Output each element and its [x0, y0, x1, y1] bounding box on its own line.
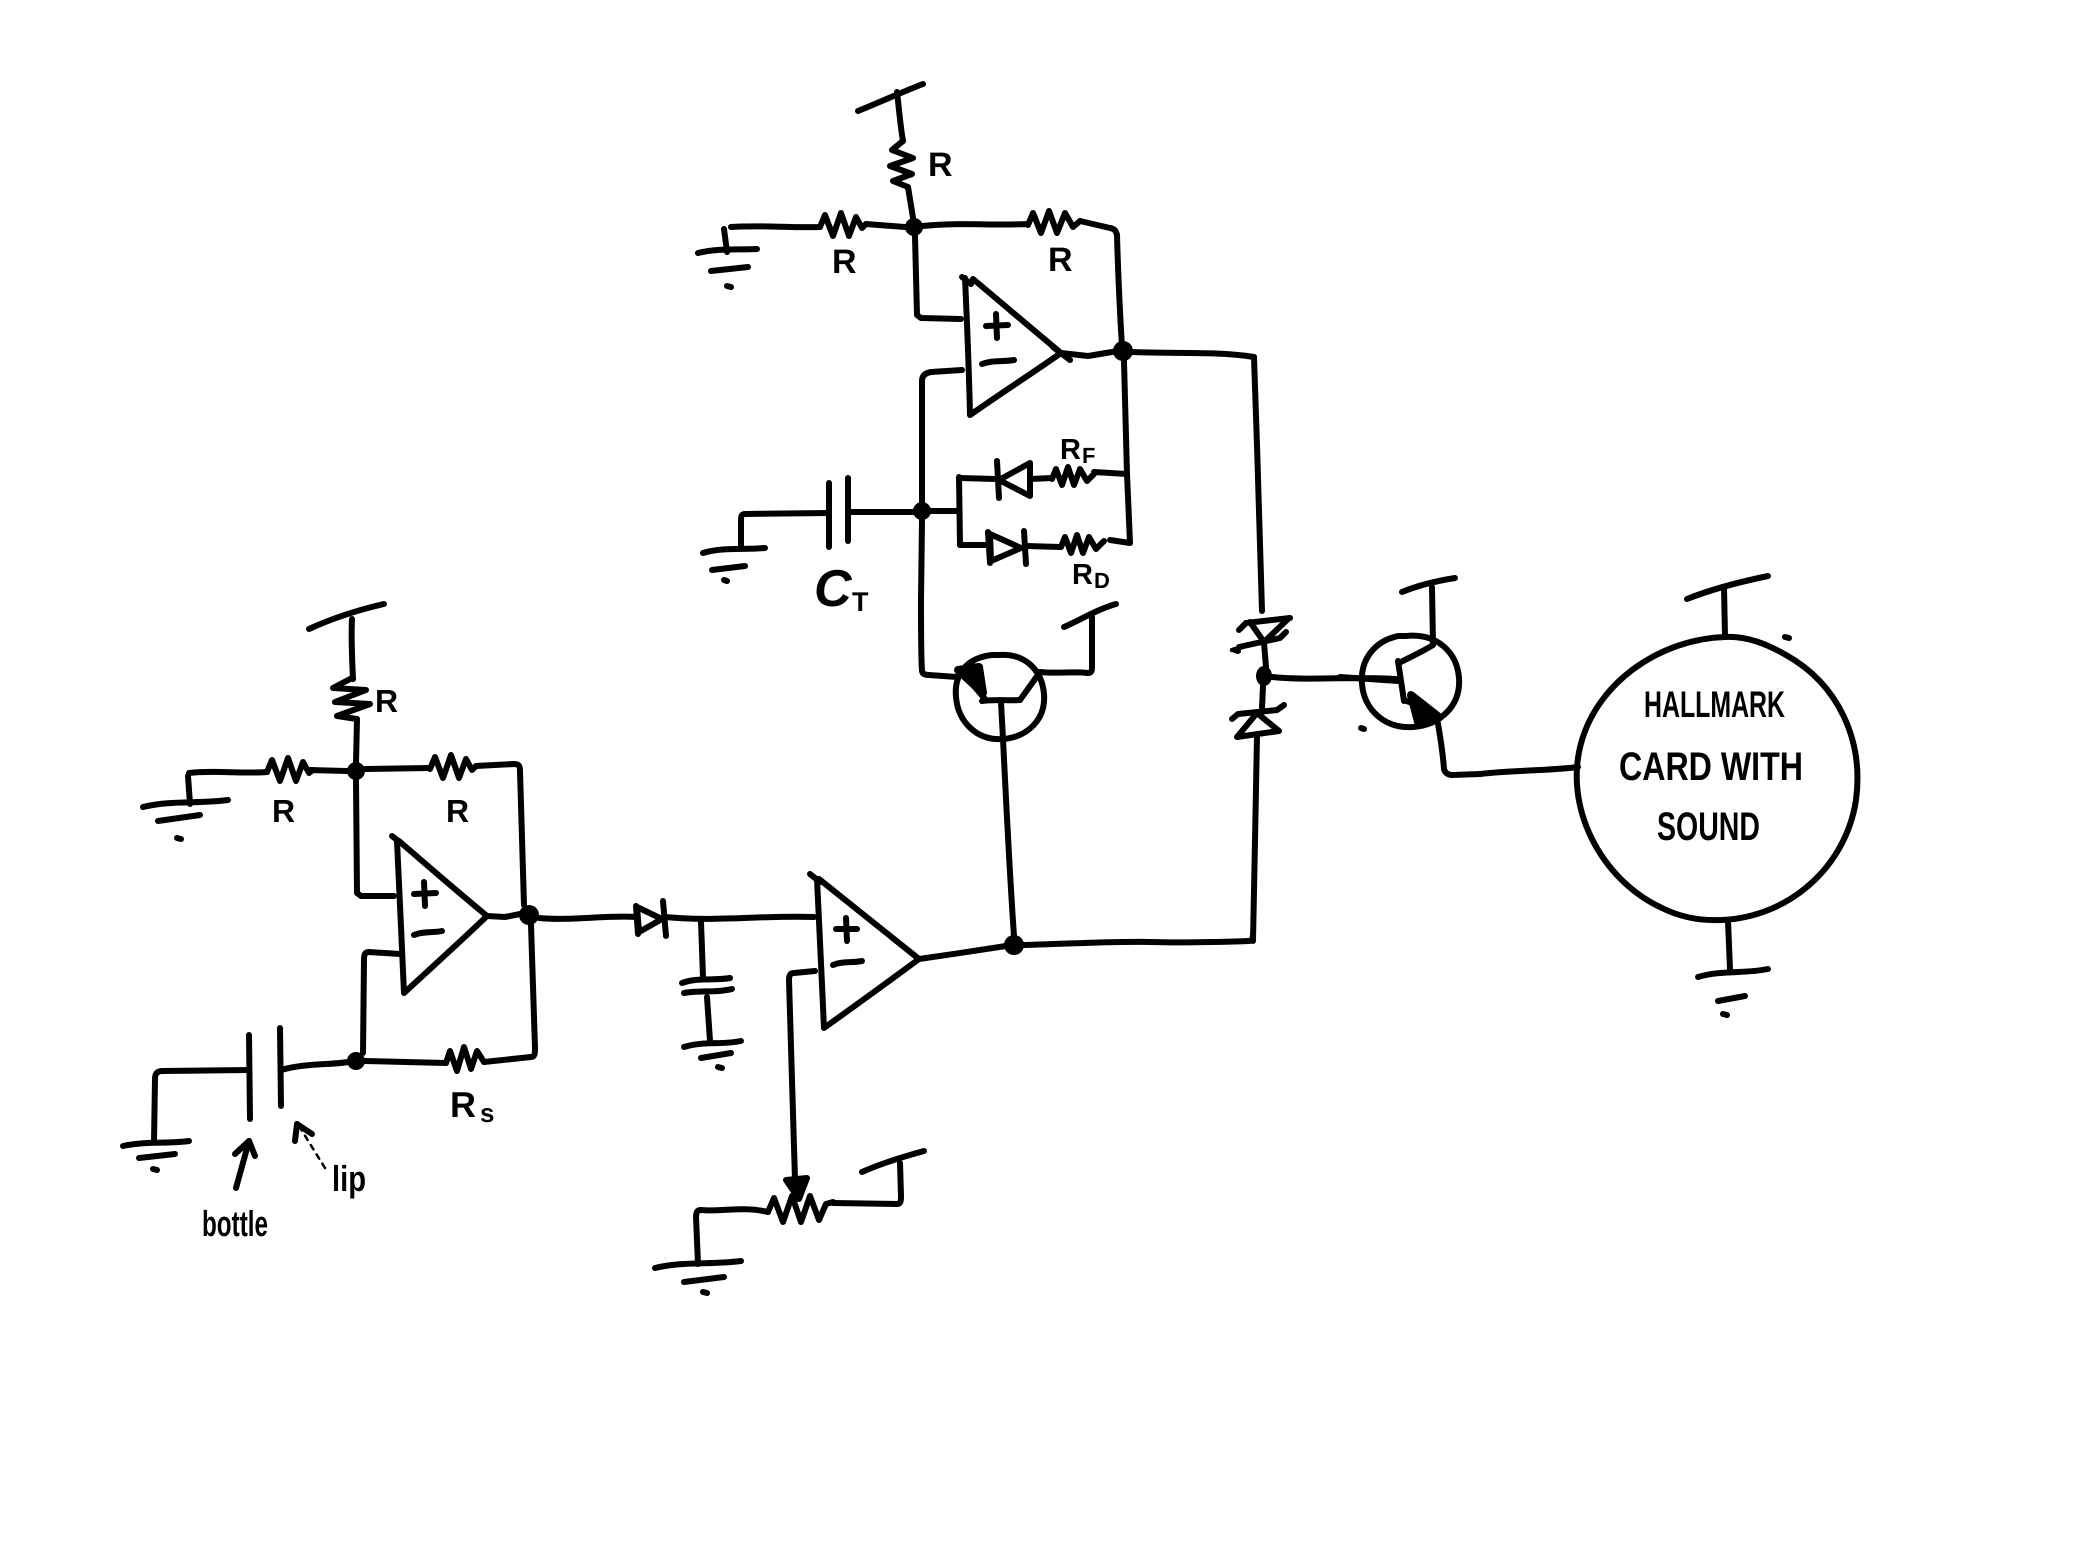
resistor R3 (right) [1028, 211, 1080, 233]
wire junction right to zener branch [1133, 352, 1254, 357]
svg-text:SOUND: SOUND [1657, 805, 1760, 849]
op-amp U2 triangle [810, 874, 820, 882]
op-amp U1 plus [986, 325, 1008, 326]
ground (C2) [684, 1041, 741, 1047]
wire CT right plate to node [848, 509, 913, 515]
svg-text:T: T [852, 587, 869, 617]
wire D3 to RD [1026, 546, 1061, 547]
capacitor bottle left plate [249, 1035, 250, 1119]
svg-text:lip: lip [332, 1158, 366, 1199]
small specks [1361, 728, 1364, 729]
Hallmark circle [1577, 637, 1858, 920]
wire op-amp output to junction [487, 914, 520, 917]
wire Rs up to output junction [484, 925, 535, 1062]
wire R3 to feedback corner [1080, 221, 1117, 235]
wire Hallmark bottom to ground [1728, 921, 1730, 969]
power rail (Q2) [1402, 578, 1455, 592]
zener Z2 [1232, 705, 1284, 719]
wire node to plus input [915, 236, 961, 319]
resistor Rs [446, 1047, 484, 1071]
cap node junction dot [347, 1052, 365, 1070]
arrow to bottle [236, 1141, 249, 1188]
wire CT left plate to ground [741, 513, 829, 548]
svg-text:R: R [450, 1084, 476, 1125]
wire pot left to ground [696, 1209, 768, 1264]
wire op-amp U2 output to junction [919, 946, 1006, 959]
svg-text:R: R [1060, 434, 1081, 466]
wire D2 to RF [1030, 478, 1052, 479]
wire minus input to pot wiper [789, 971, 815, 1180]
node junction dot (left) [347, 762, 365, 780]
op-amp U3 triangle [392, 836, 401, 843]
pot wiper arrowhead [786, 1178, 807, 1199]
wire C2 to ground [707, 997, 710, 1041]
wire D1 to op-amp U2 plus input [665, 917, 814, 919]
speck near circle top [1785, 637, 1789, 638]
wire node to resistor R3 [923, 224, 1028, 226]
wire left vertical to diode D3 [960, 542, 988, 548]
resistor R2 (left) [820, 213, 866, 236]
wire junction right to zener Z2 bottom [1024, 934, 1253, 945]
diode D1 [636, 906, 638, 934]
wire node to resistor Rs [365, 1061, 446, 1063]
wire node to resistor R5 [308, 770, 347, 771]
svg-text:R: R [832, 243, 857, 281]
op-amp U2 plus [836, 926, 857, 932]
svg-text:HALLMARK: HALLMARK [1644, 684, 1785, 725]
transistor Q2 base bar [1398, 661, 1404, 701]
capacitor bottle right plate [280, 1028, 281, 1106]
output junction dot (left) [519, 905, 539, 925]
zener Z1 [1239, 618, 1290, 630]
wire minus input down to cap node [363, 952, 400, 1053]
wire node to resistor R6 [365, 768, 430, 769]
ground (CT) [703, 548, 765, 553]
resistor RF [1052, 467, 1094, 485]
resistor R1 (vertical) [890, 141, 913, 187]
resistor RD [1061, 535, 1104, 553]
transistor Q1 emitter arrow [958, 667, 983, 693]
capacitor C2 bottom plate [684, 989, 732, 993]
capacitor C2 top plate [682, 978, 730, 983]
power rail (Q1) [1064, 604, 1116, 627]
output overshoot tick [1053, 347, 1070, 360]
svg-text:R: R [1048, 241, 1073, 279]
op-amp U1 triangle [962, 277, 971, 284]
transistor Q1 base bar [982, 700, 1020, 701]
ground (bottle) [123, 1141, 189, 1146]
capacitor CT right plate [845, 478, 851, 541]
potentiometer resistor [768, 1196, 833, 1222]
wire op-amp output to junction [1061, 351, 1118, 356]
output junction dot (U2) [1004, 935, 1024, 955]
wire tap down to capacitor C2 [701, 922, 703, 977]
transistor Q2 circle [1362, 636, 1459, 727]
wire left plate to ground [154, 1070, 249, 1142]
wire left vertical to diode D2 [959, 478, 996, 479]
svg-text:R: R [375, 683, 398, 719]
wire junction down to zener Z2 [1262, 686, 1263, 708]
wire from J1 corner down to zener Z1 [1254, 357, 1262, 611]
op-amp U2 minus [833, 961, 862, 965]
transistor Q2 emitter with arrow [1404, 700, 1422, 707]
wire R6 to feedback corner down [476, 764, 524, 905]
transistor Q1 lower lead [1001, 702, 1003, 739]
transistor Q1 collector [1020, 672, 1040, 700]
power rail (Hallmark) [1687, 576, 1768, 599]
wire RD to right vertical [1110, 540, 1130, 543]
svg-text:CARD WITH: CARD WITH [1619, 745, 1803, 789]
resistor R6 [430, 755, 476, 778]
wire CT node to left vertical [930, 508, 959, 514]
wire Z2 down to op-amp U2 output wire [1253, 736, 1257, 941]
arrow to lip (dashed) [299, 1126, 325, 1168]
svg-text:R: R [272, 793, 295, 829]
power rail (pot) [862, 1151, 924, 1172]
diode D3 (points right) [988, 532, 990, 563]
wire R2 to ground [731, 223, 820, 230]
wire R5 to ground [189, 772, 267, 773]
power rail (left section) [309, 604, 384, 629]
wire CT node down to Q1 [921, 520, 957, 677]
wire pot right to power [833, 1163, 901, 1204]
svg-text:s: s [480, 1098, 494, 1128]
wire junction to Q2 base [1272, 677, 1396, 679]
ground (pot) [655, 1261, 741, 1268]
op-amp U3 plus [414, 893, 436, 894]
resistor R5 [267, 758, 313, 781]
feedback right vertical [1124, 361, 1130, 543]
svg-text:bottle: bottle [202, 1203, 268, 1244]
wire RF to right vertical [1094, 472, 1127, 474]
transistor Q2 collector [1399, 645, 1433, 663]
ground (left section) [143, 800, 228, 807]
op-amp U3 minus [414, 931, 442, 935]
svg-text:D: D [1094, 568, 1110, 593]
zener junction dot [1256, 666, 1272, 686]
wire right plate to node [281, 1062, 348, 1070]
power rail V+ (top) [858, 84, 923, 111]
capacitor CT left plate [826, 483, 832, 547]
svg-text:C: C [814, 560, 853, 618]
wire Z1 to junction [1264, 643, 1266, 667]
svg-text:R: R [446, 793, 469, 829]
wire zener junction to Q2 base (inside circle) [1340, 677, 1398, 681]
wire Q1 collector to power [1040, 617, 1092, 673]
wire Q2 emitter down to Hallmark [1437, 718, 1480, 775]
wire node to resistor R2 [866, 224, 905, 227]
diode D2 (points left) [997, 461, 999, 498]
node junction dot [905, 218, 923, 236]
ground (Hallmark) [1698, 969, 1768, 977]
wire minus input down [922, 370, 962, 505]
svg-text:R: R [1072, 559, 1093, 591]
transistor Q1 circle [956, 655, 1044, 739]
ground (top-left) [698, 249, 757, 253]
wire node to plus input [356, 780, 394, 896]
svg-text:F: F [1082, 443, 1095, 468]
svg-text:R: R [928, 146, 953, 184]
wire junction to diode D1 [539, 917, 637, 919]
op-amp U1 minus [982, 360, 1014, 364]
wire R4 to node [356, 719, 357, 763]
node CT junction dot [913, 502, 931, 520]
resistor R4 (vertical) [333, 678, 370, 719]
wire corner down to output junction [1117, 235, 1122, 347]
feedback left vertical [959, 477, 960, 545]
output junction dot [1113, 341, 1133, 361]
wire R1 to node [908, 187, 914, 224]
